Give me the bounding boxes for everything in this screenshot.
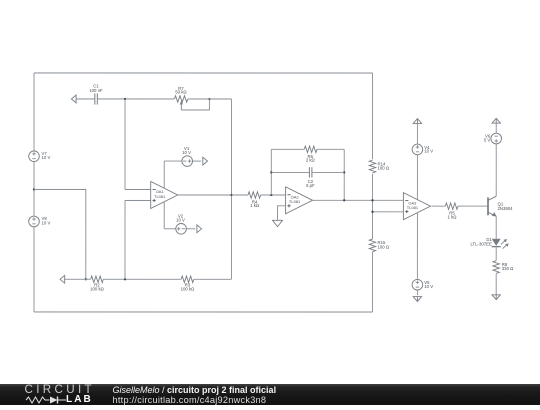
wire OA1 plus input bbox=[125, 199, 151, 201]
wire OA2 plus to ground bbox=[277, 206, 285, 221]
wire OA1 plus feed to bottom rail bbox=[124, 200, 126, 279]
op-amp OA2 bbox=[286, 187, 313, 214]
potentiometer R7 body bbox=[174, 96, 187, 102]
label OA3 bbox=[407, 200, 419, 210]
junction OA2 output feedback bbox=[343, 199, 345, 201]
label C2 bbox=[306, 179, 315, 188]
wire feedback left vertical bbox=[270, 149, 272, 195]
label R4 bbox=[250, 199, 260, 208]
terminal node V5 minus bbox=[413, 297, 421, 302]
wire to OA1 minus input bbox=[125, 188, 151, 190]
junction OA2 summing node bbox=[270, 194, 272, 196]
wire to V1 bbox=[164, 160, 182, 162]
label R15 bbox=[377, 240, 389, 249]
transistor Q1 bbox=[488, 196, 497, 216]
resistor R6 bbox=[304, 146, 317, 152]
wire R3 to right corner bbox=[194, 278, 232, 280]
op-amp OA1 bbox=[151, 181, 178, 208]
label D1 bbox=[470, 237, 492, 246]
resistor R4 bbox=[248, 192, 261, 198]
wire right column between R14 and R15 bbox=[371, 174, 373, 239]
junction divider to OA3 plus bbox=[371, 211, 373, 213]
wire V6 to terminal bbox=[495, 124, 497, 134]
label V1 bbox=[182, 146, 191, 155]
wire bottom rail to R2 bbox=[64, 278, 90, 280]
voltage source V7 bbox=[29, 151, 40, 162]
voltage source V5 bbox=[412, 279, 423, 290]
wire R7 wiper to node bbox=[181, 99, 209, 110]
wire terminal to C1 bbox=[76, 98, 95, 100]
LED D1 light arrows bbox=[501, 239, 509, 249]
resistor R14 bbox=[369, 160, 375, 173]
LED D1 bbox=[492, 239, 501, 247]
wire left column upper bbox=[33, 73, 35, 151]
label V7 bbox=[42, 151, 51, 160]
capacitor C1 bbox=[95, 93, 98, 104]
wire OA3 V+ pin bbox=[416, 155, 418, 200]
wire C2 left lead bbox=[271, 171, 309, 173]
wire to R6 bbox=[271, 148, 304, 150]
wire right column above R14 bbox=[372, 73, 374, 159]
wire bottom border net bbox=[34, 311, 373, 313]
label V4 bbox=[424, 145, 433, 154]
wire R6 to right vertical bbox=[317, 148, 344, 150]
label C1 bbox=[89, 84, 103, 93]
wire Q1 collector to V6 bbox=[495, 144, 497, 196]
label OA2 bbox=[289, 195, 301, 205]
op-amp OA3 bbox=[403, 193, 430, 220]
wire top border net bbox=[34, 72, 373, 74]
wire OA3 output to R5 bbox=[431, 205, 445, 207]
terminal node V6 top bbox=[492, 118, 500, 123]
wire V5 to terminal bbox=[416, 290, 418, 295]
wire C2 right lead bbox=[312, 171, 344, 173]
resistor R15 bbox=[369, 239, 375, 252]
label R14 bbox=[378, 161, 390, 170]
schematic title bbox=[113, 385, 277, 395]
voltage source V8 bbox=[29, 216, 40, 227]
wire OA1 node to R4 bbox=[232, 194, 249, 196]
junction feedback left C2 tap bbox=[270, 171, 272, 173]
voltage source V4 bbox=[412, 144, 423, 155]
label R7 bbox=[175, 86, 187, 95]
capacitor C2 bbox=[309, 167, 312, 177]
wire V1 to terminal bbox=[193, 160, 202, 162]
voltage source V2 bbox=[176, 223, 187, 234]
wire down to OA1 output node bbox=[231, 99, 233, 195]
ground under OA2 bbox=[272, 220, 282, 226]
wire C1 to R7 bbox=[98, 98, 174, 100]
label R8 bbox=[502, 262, 514, 271]
wire OA1 V- pin bbox=[163, 202, 165, 229]
wire OA1 minus feed vertical bbox=[124, 99, 126, 190]
wire R7 to corner bbox=[188, 98, 232, 100]
label R6 bbox=[306, 154, 316, 163]
resistor R8 bbox=[493, 261, 499, 274]
wire D1 to R8 bbox=[495, 247, 497, 260]
wire OA2 output row bbox=[313, 199, 404, 201]
label R3 bbox=[181, 282, 196, 291]
junction divider mid to OA3 minus bbox=[371, 199, 373, 201]
voltage source V1 bbox=[182, 156, 193, 167]
wire R5 to Q1 base bbox=[458, 205, 488, 207]
junction bottom rail OA1 plus column bbox=[124, 278, 126, 280]
wire R4 to OA2 minus bbox=[261, 194, 286, 196]
resistor R3 bbox=[181, 276, 194, 282]
wire V4 to terminal bbox=[416, 124, 418, 144]
junction C1 node to OA1 minus column bbox=[124, 98, 126, 100]
potentiometer R7 wiper bbox=[180, 101, 183, 110]
label V5 bbox=[424, 280, 433, 289]
label OA1 bbox=[154, 189, 166, 199]
label Q1 bbox=[497, 202, 513, 211]
terminal node C1 left bbox=[71, 95, 76, 103]
wire OA1 output bbox=[178, 194, 232, 196]
schematic url bbox=[113, 395, 267, 405]
label V8 bbox=[41, 216, 50, 225]
wire R2 to R3 bbox=[103, 278, 180, 280]
terminal node V2 minus bbox=[197, 225, 202, 233]
wire OA3 V- pin bbox=[416, 213, 418, 280]
wire to V2 bbox=[164, 228, 176, 230]
terminal node bottom-left bbox=[60, 275, 65, 283]
wire V7-V8 tap to bottom rail bbox=[34, 189, 86, 279]
bottom info bar bbox=[0, 384, 540, 405]
wire left column lower bbox=[33, 227, 35, 312]
terminal node V4 plus bbox=[413, 119, 421, 124]
junction OA1 output node bbox=[230, 194, 232, 196]
label V2 bbox=[176, 214, 185, 223]
wire V2 to terminal bbox=[186, 228, 195, 230]
label V6 bbox=[484, 134, 491, 143]
wire OA1 V+ pin bbox=[163, 161, 165, 188]
CircuitLab logo text bbox=[25, 383, 95, 396]
label R5 bbox=[448, 211, 458, 220]
resistor R5 bbox=[445, 203, 458, 209]
wire between V7 and V8 bbox=[33, 162, 35, 217]
wire right column below R15 bbox=[371, 252, 373, 312]
terminal node emitter bottom bbox=[492, 295, 500, 300]
label R2 bbox=[90, 282, 105, 291]
voltage source V6 bbox=[491, 133, 502, 144]
wire bottom rail up to OA1 output node bbox=[230, 195, 232, 279]
wire R8 to terminal bbox=[495, 274, 497, 295]
terminal node V1 plus bbox=[203, 157, 208, 165]
junction feedback right C2 tap bbox=[343, 171, 345, 173]
wire to OA3 plus input bbox=[372, 211, 403, 213]
junction bottom rail left bbox=[85, 278, 87, 280]
junction R7 wiper tap bbox=[208, 98, 210, 100]
resistor R2 bbox=[91, 276, 104, 282]
junction V7-V8 tap bbox=[33, 188, 35, 190]
wire feedback right vertical bbox=[343, 149, 345, 200]
wire Q1 emitter to D1 bbox=[495, 216, 497, 238]
